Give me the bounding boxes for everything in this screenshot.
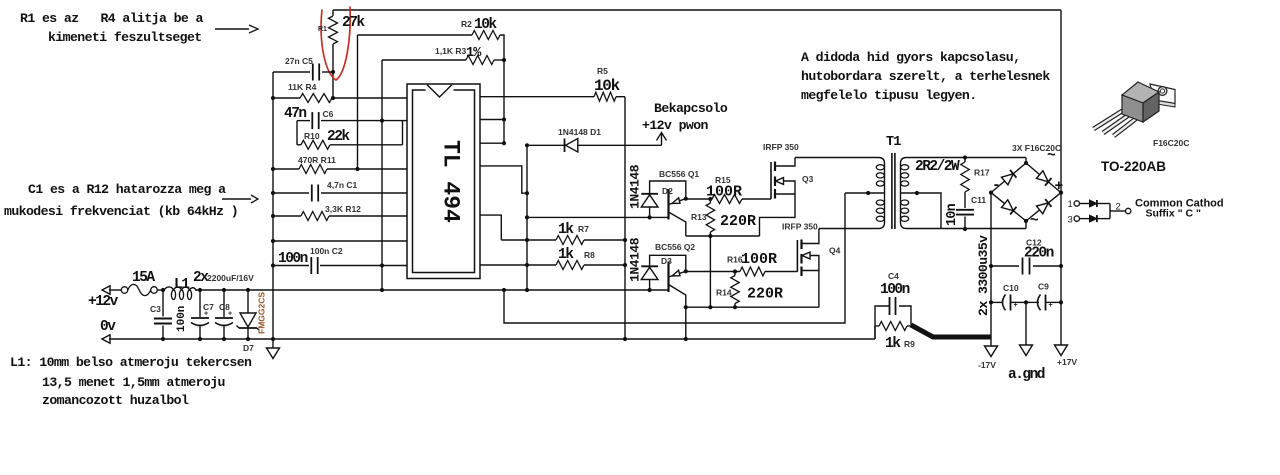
svg-text:C10: C10 bbox=[1003, 283, 1019, 293]
svg-text:13,5 menet 1,5mm atmeroju: 13,5 menet 1,5mm atmeroju bbox=[42, 375, 225, 390]
svg-text:zomancozott huzalbol: zomancozott huzalbol bbox=[42, 393, 189, 408]
svg-text:R5: R5 bbox=[597, 66, 608, 76]
svg-text:10k: 10k bbox=[474, 17, 497, 33]
svg-text:+12v: +12v bbox=[88, 294, 119, 310]
svg-text:F16C20C: F16C20C bbox=[1153, 138, 1189, 148]
svg-text:100n: 100n bbox=[880, 282, 910, 298]
svg-text:100n: 100n bbox=[278, 251, 308, 267]
svg-text:FMGG2CS: FMGG2CS bbox=[257, 292, 267, 334]
svg-text:C6: C6 bbox=[323, 109, 334, 119]
svg-text:R10: R10 bbox=[304, 131, 320, 141]
svg-text:R2: R2 bbox=[461, 19, 472, 29]
svg-text:+: + bbox=[1014, 302, 1018, 309]
svg-text:BC556 Q2: BC556 Q2 bbox=[655, 242, 695, 252]
svg-text:1k: 1k bbox=[558, 222, 574, 238]
svg-text:D7: D7 bbox=[243, 343, 254, 353]
svg-text:R13: R13 bbox=[691, 212, 707, 222]
svg-text:TL 494: TL 494 bbox=[438, 140, 464, 223]
svg-text:220R: 220R bbox=[720, 213, 756, 230]
svg-text:4,7n C1: 4,7n C1 bbox=[327, 180, 358, 190]
svg-text:IRFP 350: IRFP 350 bbox=[763, 142, 799, 152]
svg-text:R8: R8 bbox=[584, 250, 595, 260]
svg-text:220n: 220n bbox=[1024, 246, 1054, 262]
svg-text:1: 1 bbox=[1068, 199, 1073, 210]
svg-text:1k: 1k bbox=[885, 336, 901, 352]
svg-text:C11: C11 bbox=[971, 195, 986, 205]
svg-text:R1 es az R4 alitja be a: R1 es az R4 alitja be a bbox=[20, 11, 204, 26]
svg-text:15A: 15A bbox=[132, 270, 155, 286]
svg-text:R17: R17 bbox=[974, 168, 990, 178]
svg-text:1k: 1k bbox=[558, 247, 574, 263]
svg-text:-: - bbox=[992, 178, 999, 194]
svg-text:C9: C9 bbox=[1038, 282, 1049, 292]
svg-text:10n: 10n bbox=[945, 203, 960, 226]
svg-text:mukodesi frekvenciat (kb 64kHz: mukodesi frekvenciat (kb 64kHz ) bbox=[4, 204, 238, 219]
svg-text:Bekapcsolo: Bekapcsolo bbox=[654, 101, 728, 116]
svg-text:+12v pwon: +12v pwon bbox=[642, 118, 709, 133]
svg-text:47n: 47n bbox=[284, 106, 306, 122]
svg-text:27k: 27k bbox=[342, 15, 365, 31]
svg-text:C4: C4 bbox=[888, 271, 899, 281]
svg-text:100n C2: 100n C2 bbox=[310, 246, 343, 256]
svg-text:L1: 10mm belso atmeroju tekerc: L1: 10mm belso atmeroju tekercsen bbox=[10, 355, 252, 370]
svg-text:-17V: -17V bbox=[978, 360, 996, 370]
svg-text:27n C5: 27n C5 bbox=[285, 56, 313, 66]
svg-text:+: + bbox=[204, 311, 208, 318]
svg-text:22k: 22k bbox=[327, 129, 350, 145]
svg-text:a.gnd: a.gnd bbox=[1008, 367, 1045, 383]
svg-text:100R: 100R bbox=[706, 184, 742, 201]
svg-text:IRFP 350: IRFP 350 bbox=[782, 222, 818, 232]
svg-text:T1: T1 bbox=[886, 135, 901, 150]
svg-text:1,1K R3: 1,1K R3 bbox=[435, 46, 466, 56]
svg-text:2200uF/16V: 2200uF/16V bbox=[207, 273, 254, 283]
svg-text:10k: 10k bbox=[594, 77, 621, 95]
svg-text:hutobordara szerelt, a terhele: hutobordara szerelt, a terhelesnek bbox=[801, 69, 1050, 84]
svg-text:1N4148: 1N4148 bbox=[628, 164, 643, 209]
svg-text:R1: R1 bbox=[318, 26, 327, 33]
svg-text:A didoda hid gyors kapcsolasu,: A didoda hid gyors kapcsolasu, bbox=[801, 50, 1020, 65]
svg-text:100R: 100R bbox=[741, 251, 777, 268]
svg-text:3: 3 bbox=[1068, 215, 1073, 226]
svg-text:BC556 Q1: BC556 Q1 bbox=[659, 169, 699, 179]
svg-text:220R: 220R bbox=[747, 286, 783, 303]
svg-text:2: 2 bbox=[1116, 202, 1121, 213]
svg-text:C3: C3 bbox=[150, 304, 161, 314]
svg-text:megfelelo tipusu legyen.: megfelelo tipusu legyen. bbox=[801, 88, 977, 103]
svg-text:470R R11: 470R R11 bbox=[298, 155, 336, 165]
svg-text:Suffix " C ": Suffix " C " bbox=[1146, 208, 1201, 220]
svg-text:+: + bbox=[1049, 302, 1053, 309]
svg-text:R14: R14 bbox=[716, 288, 732, 298]
svg-text:R7: R7 bbox=[578, 224, 589, 234]
svg-text:Q3: Q3 bbox=[802, 174, 814, 184]
svg-text:+: + bbox=[228, 311, 232, 318]
svg-text:11K R4: 11K R4 bbox=[288, 82, 317, 92]
svg-text:TO-220AB: TO-220AB bbox=[1101, 159, 1166, 174]
svg-text:+: + bbox=[1055, 179, 1063, 195]
svg-text:L1: L1 bbox=[174, 277, 190, 293]
svg-text:2R2/2W: 2R2/2W bbox=[915, 159, 960, 175]
svg-text:D3: D3 bbox=[661, 256, 672, 266]
svg-text:C1 es a R12 hatarozza meg a: C1 es a R12 hatarozza meg a bbox=[28, 182, 226, 197]
svg-text:3,3K R12: 3,3K R12 bbox=[325, 204, 361, 214]
svg-text:100n: 100n bbox=[176, 306, 188, 332]
svg-text:1%: 1% bbox=[466, 46, 482, 61]
svg-text:1N4148: 1N4148 bbox=[628, 237, 643, 282]
svg-text:2x 3300u35v: 2x 3300u35v bbox=[976, 235, 991, 316]
svg-text:R9: R9 bbox=[904, 339, 915, 349]
svg-text:1N4148 D1: 1N4148 D1 bbox=[558, 127, 601, 137]
svg-text:+17V: +17V bbox=[1057, 357, 1077, 367]
svg-text:0v: 0v bbox=[100, 319, 116, 335]
svg-text:kimeneti feszultseget: kimeneti feszultseget bbox=[48, 30, 202, 45]
svg-text:D2: D2 bbox=[662, 186, 673, 196]
svg-text:Q4: Q4 bbox=[829, 246, 841, 256]
